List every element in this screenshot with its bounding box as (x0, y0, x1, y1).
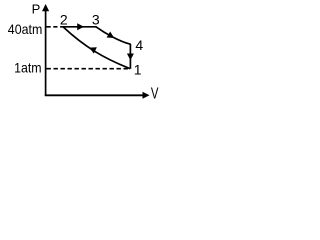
svg-text:V: V (151, 86, 159, 103)
dashed line at 40atm to point 2 (47, 26, 64, 28)
svg-text:2: 2 (60, 11, 68, 27)
svg-text:4: 4 (135, 37, 143, 53)
process 2-3 isobar line (63, 26, 97, 28)
svg-text:1atm: 1atm (14, 59, 42, 75)
process 4-1 isochore line (129, 44, 131, 69)
svg-text:P: P (32, 2, 41, 17)
svg-text:3: 3 (92, 11, 100, 27)
svg-text:1: 1 (134, 61, 142, 77)
arrow on 2-3 (77, 23, 84, 30)
arrow on 1-2 (pointing toward 2) (88, 44, 97, 53)
process 1-2 compression curve (63, 27, 130, 69)
P axis (vertical) (42, 4, 49, 96)
process 3-4 expansion curve (96, 27, 131, 45)
V axis (horizontal) (45, 92, 150, 99)
svg-text:40atm: 40atm (8, 21, 43, 37)
arrow on 4-1 (127, 54, 134, 61)
dashed line at 1atm to point 1 (47, 68, 130, 70)
arrow on 3-4 (107, 31, 116, 41)
